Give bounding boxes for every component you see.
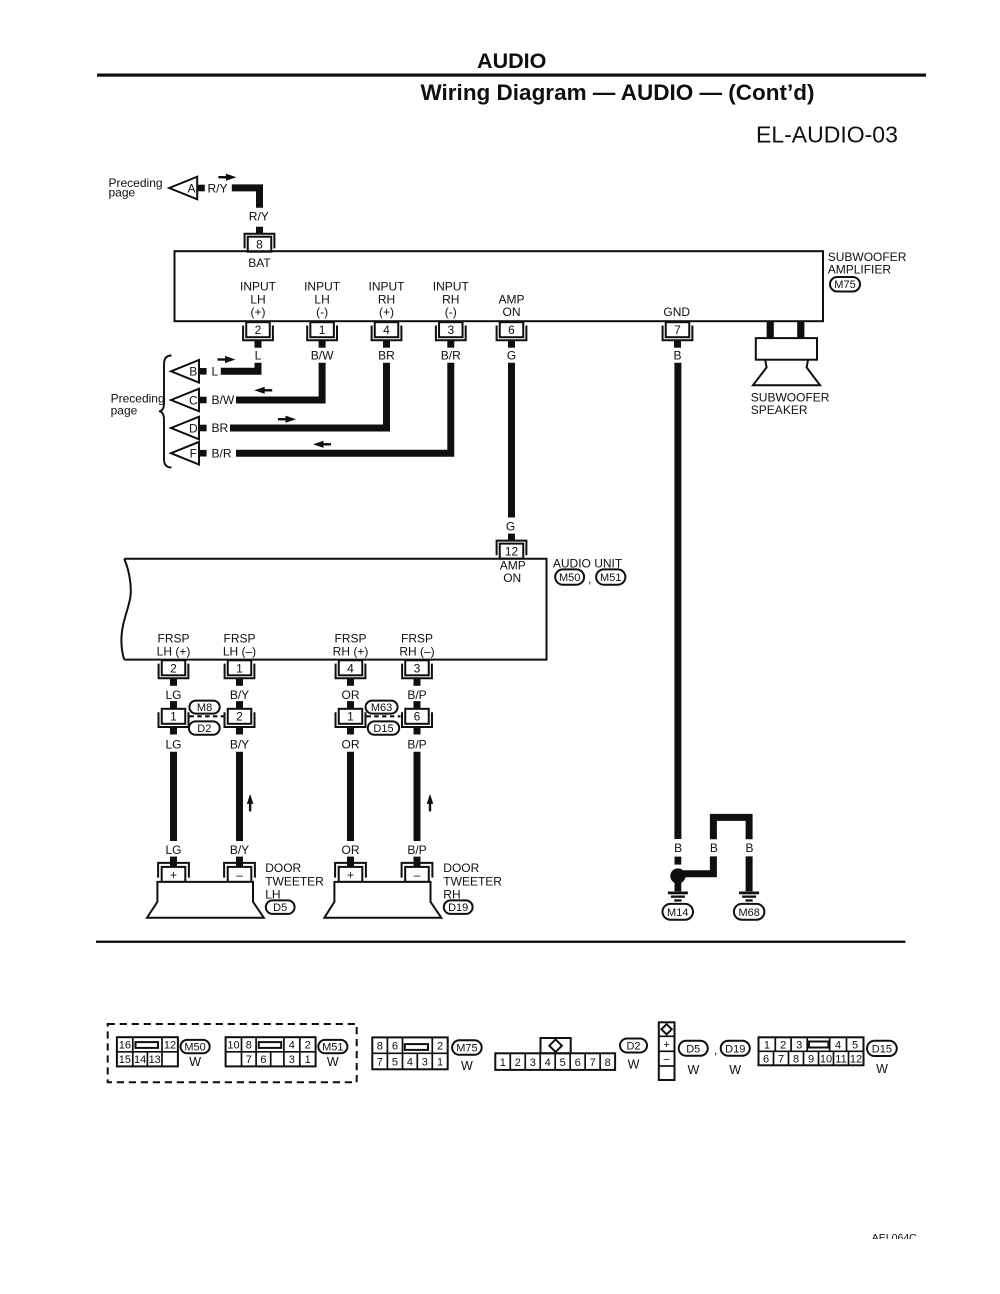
- footer rule: [96, 941, 905, 943]
- svg-text:B/W: B/W: [212, 393, 235, 407]
- svg-text:8: 8: [246, 1040, 252, 1052]
- wire B/Y down to tweeter: [236, 752, 243, 841]
- keyway diamond D2: [549, 1039, 562, 1052]
- pin 8 BAT connector: [248, 237, 272, 252]
- junction node: [670, 868, 685, 883]
- pin 6 connector: [500, 322, 524, 337]
- connector triangle C: [171, 389, 199, 412]
- svg-text:8: 8: [605, 1057, 611, 1069]
- svg-text:(+): (+): [379, 305, 394, 319]
- svg-text:B/P: B/P: [407, 843, 426, 857]
- wire G from pin 6 to pin 12: [508, 363, 515, 518]
- brace for preceding page group: [159, 356, 172, 468]
- svg-text:RH (+): RH (+): [333, 645, 369, 659]
- svg-text:D5: D5: [273, 902, 287, 914]
- arrow right (row D): [286, 416, 297, 423]
- svg-text:5: 5: [392, 1057, 398, 1069]
- svg-text:B/P: B/P: [407, 688, 426, 702]
- svg-text:L: L: [255, 349, 262, 363]
- svg-text:OR: OR: [342, 843, 360, 857]
- svg-text:+: +: [663, 1039, 669, 1051]
- svg-text:B/R: B/R: [212, 446, 232, 460]
- connector face D15: [759, 1037, 864, 1065]
- svg-text:M51: M51: [322, 1042, 343, 1054]
- svg-text:B/P: B/P: [407, 738, 426, 752]
- svg-text:M75: M75: [456, 1043, 477, 1055]
- connector ref D19: [444, 900, 473, 914]
- svg-text:1: 1: [764, 1039, 770, 1051]
- inline connector pin 2 (M8/D2): [236, 701, 243, 709]
- connector ref D15 (face): [867, 1041, 897, 1056]
- svg-text:(+): (+): [251, 305, 266, 319]
- svg-text:D19: D19: [725, 1043, 745, 1055]
- svg-text:15: 15: [119, 1054, 131, 1066]
- amplifier to speaker stub right: [797, 322, 804, 339]
- svg-text:2: 2: [437, 1041, 443, 1053]
- svg-text:F: F: [190, 447, 197, 461]
- subwoofer amplifier box M75: [175, 251, 824, 321]
- svg-text:FRSP: FRSP: [401, 631, 433, 645]
- audio unit pin 4 connector: [339, 660, 363, 675]
- svg-text:7: 7: [377, 1057, 383, 1069]
- svg-text:–: –: [236, 868, 243, 882]
- connector face M75: [372, 1037, 447, 1069]
- svg-text:4: 4: [383, 323, 390, 337]
- wire B stub to junction: [675, 857, 682, 865]
- svg-text:D: D: [189, 421, 198, 435]
- svg-text:2: 2: [170, 661, 177, 675]
- svg-text:D15: D15: [373, 723, 393, 735]
- svg-text:4: 4: [289, 1040, 295, 1052]
- arrow up (B/Y wire): [247, 794, 254, 804]
- audio unit pin 3 connector: [405, 660, 429, 675]
- ground symbol M68: [739, 892, 759, 895]
- svg-text:W: W: [687, 1063, 699, 1077]
- svg-text:10: 10: [227, 1040, 239, 1052]
- svg-text:M68: M68: [738, 907, 759, 919]
- svg-text:A: A: [187, 181, 195, 195]
- svg-text:13: 13: [149, 1054, 161, 1066]
- tweeter RH terminal +: [347, 857, 354, 868]
- wire B from pin 7 down: [674, 363, 681, 839]
- svg-text:M51: M51: [600, 572, 621, 584]
- header rule: [97, 74, 926, 77]
- svg-text:RH (–): RH (–): [399, 645, 434, 659]
- arrow left (row F): [313, 441, 324, 448]
- wire from junction to right branch: [678, 856, 714, 873]
- ground ref M68: [734, 904, 765, 920]
- svg-text:4: 4: [407, 1057, 413, 1069]
- svg-text:LG: LG: [165, 688, 181, 702]
- svg-text:2: 2: [780, 1039, 786, 1051]
- svg-text:+: +: [347, 868, 354, 882]
- connector face D5/D19: [659, 1022, 675, 1080]
- svg-text:BR: BR: [212, 421, 229, 435]
- dashed group box (M50/M51): [108, 1024, 357, 1082]
- svg-text:OR: OR: [342, 738, 360, 752]
- wire B/W from C to pin 1: [236, 363, 322, 400]
- svg-text:Wiring Diagram — AUDIO — (Cont: Wiring Diagram — AUDIO — (Cont’d): [421, 80, 815, 105]
- subwoofer speaker symbol: [756, 338, 817, 360]
- svg-text:7: 7: [778, 1053, 784, 1065]
- wire OR down to tweeter: [347, 752, 354, 841]
- connector triangle F: [171, 442, 199, 465]
- pin 7 connector: [666, 322, 690, 337]
- audio unit box M50/M51: [124, 559, 546, 660]
- svg-text:W: W: [461, 1059, 473, 1073]
- svg-text:1: 1: [347, 710, 354, 724]
- svg-text:6: 6: [392, 1041, 398, 1053]
- svg-text:3: 3: [796, 1039, 802, 1051]
- svg-text:6: 6: [414, 710, 421, 724]
- svg-text:7: 7: [590, 1057, 596, 1069]
- pin 4 connector: [375, 322, 399, 337]
- svg-text:12: 12: [164, 1040, 176, 1052]
- svg-text:3: 3: [530, 1057, 536, 1069]
- svg-text:DOOR: DOOR: [443, 861, 479, 875]
- svg-text:+: +: [170, 868, 177, 882]
- connector ref D15: [368, 721, 399, 734]
- svg-text:7: 7: [246, 1054, 252, 1066]
- svg-text:9: 9: [808, 1053, 814, 1065]
- svg-text:BAT: BAT: [248, 256, 271, 270]
- svg-text:AUDIO: AUDIO: [477, 49, 546, 73]
- svg-text:3: 3: [289, 1054, 295, 1066]
- connector ref M50: [555, 569, 584, 584]
- wire BR from D to pin 4: [230, 363, 387, 428]
- svg-text:1: 1: [236, 661, 243, 675]
- svg-text:D2: D2: [197, 723, 211, 735]
- connector face M50: [117, 1037, 178, 1066]
- keyway diamond D5: [661, 1024, 671, 1034]
- dashed connector mating line (M8/D2): [190, 715, 224, 717]
- svg-text:10: 10: [820, 1053, 832, 1065]
- svg-text:B/Y: B/Y: [230, 688, 249, 702]
- keyway box D2: [541, 1038, 571, 1053]
- connector ref M75: [830, 277, 860, 292]
- connector triangle D: [171, 417, 199, 440]
- svg-text:M50: M50: [559, 572, 580, 584]
- wire B/R from F to pin 3: [236, 363, 451, 454]
- arrow right (row B): [225, 356, 236, 363]
- svg-text:ON: ON: [503, 571, 521, 585]
- svg-text:W: W: [189, 1055, 201, 1069]
- ground ref M14: [663, 904, 694, 920]
- svg-text:W: W: [327, 1055, 339, 1069]
- svg-text:16: 16: [119, 1040, 131, 1052]
- connector ref M63: [366, 701, 398, 714]
- connector ref D19 (face): [721, 1041, 750, 1056]
- svg-text:3: 3: [422, 1057, 428, 1069]
- svg-text:5: 5: [560, 1057, 566, 1069]
- svg-text:C: C: [189, 393, 198, 407]
- svg-text:B: B: [710, 841, 718, 855]
- connector face M51: [226, 1037, 316, 1066]
- door tweeter RH speaker symbol: [324, 882, 441, 918]
- connector ref D5 (face): [679, 1041, 708, 1056]
- svg-text:B: B: [674, 841, 682, 855]
- dashed connector mating line (M63/D15): [367, 715, 401, 717]
- connector ref M51: [596, 569, 625, 584]
- pin 2 connector: [246, 322, 270, 337]
- connector ref D2: [189, 721, 220, 734]
- svg-text:3: 3: [414, 661, 421, 675]
- svg-text:–: –: [664, 1054, 671, 1066]
- svg-text:12: 12: [505, 545, 519, 559]
- svg-text:2: 2: [515, 1057, 521, 1069]
- svg-text:4: 4: [835, 1039, 841, 1051]
- svg-text:D15: D15: [872, 1043, 892, 1055]
- svg-text:1: 1: [305, 1054, 311, 1066]
- wire B/P down to tweeter: [414, 752, 421, 841]
- svg-text:B/Y: B/Y: [230, 843, 249, 857]
- svg-text:,: ,: [714, 1043, 717, 1057]
- svg-text:LG: LG: [165, 738, 181, 752]
- svg-text:W: W: [876, 1062, 888, 1076]
- svg-text:D19: D19: [448, 902, 468, 914]
- svg-text:1: 1: [170, 710, 177, 724]
- svg-text:–: –: [414, 868, 421, 882]
- connector triangle B: [171, 360, 199, 383]
- svg-text:page: page: [109, 186, 136, 200]
- svg-text:AMPLIFIER: AMPLIFIER: [828, 263, 892, 277]
- tweeter LH terminal +: [170, 857, 177, 868]
- svg-text:14: 14: [134, 1054, 146, 1066]
- svg-text:ON: ON: [503, 305, 521, 319]
- wire R/Y from A to pin 8: [232, 188, 260, 208]
- svg-text:2: 2: [305, 1040, 311, 1052]
- svg-text:page: page: [111, 404, 138, 418]
- svg-text:(-): (-): [316, 305, 328, 319]
- svg-text:DOOR: DOOR: [265, 861, 301, 875]
- svg-text:2: 2: [255, 323, 262, 337]
- audio unit pin 2 connector: [162, 660, 186, 675]
- wire B down to M68 ground: [746, 856, 753, 891]
- svg-text:TWEETER: TWEETER: [265, 875, 324, 889]
- svg-text:M8: M8: [197, 702, 212, 714]
- svg-text:B/W: B/W: [311, 349, 334, 363]
- svg-text:4: 4: [347, 661, 354, 675]
- svg-text:L: L: [212, 365, 219, 379]
- connector ref D5: [266, 900, 295, 914]
- svg-text:1: 1: [500, 1057, 506, 1069]
- inline connector pin 6 (M63/D15): [414, 701, 421, 709]
- ground symbol M14: [668, 892, 688, 895]
- svg-text:B/R: B/R: [441, 349, 461, 363]
- svg-text:BR: BR: [378, 349, 395, 363]
- pin 1 connector: [310, 322, 334, 337]
- svg-text:G: G: [507, 349, 516, 363]
- svg-text:TWEETER: TWEETER: [443, 875, 502, 889]
- pin 3 connector: [439, 322, 463, 337]
- arrow right (A feed): [226, 174, 237, 181]
- svg-text:M75: M75: [834, 279, 855, 291]
- svg-text:12: 12: [850, 1053, 862, 1065]
- svg-text:LH (+): LH (+): [157, 645, 191, 659]
- svg-text:LH (–): LH (–): [223, 645, 256, 659]
- svg-text:R/Y: R/Y: [249, 209, 269, 223]
- door tweeter LH speaker symbol: [147, 882, 264, 918]
- svg-text:7: 7: [674, 323, 681, 337]
- svg-text:2: 2: [236, 710, 243, 724]
- svg-text:W: W: [729, 1063, 741, 1077]
- svg-text:6: 6: [575, 1057, 581, 1069]
- svg-text:LG: LG: [165, 843, 181, 857]
- svg-text:8: 8: [793, 1053, 799, 1065]
- svg-text:EL-AUDIO-03: EL-AUDIO-03: [756, 122, 898, 148]
- svg-text:M50: M50: [184, 1042, 205, 1054]
- svg-text:5: 5: [852, 1039, 858, 1051]
- svg-text:FRSP: FRSP: [334, 631, 366, 645]
- svg-text:AUDIO UNIT: AUDIO UNIT: [553, 556, 623, 570]
- wire junction to M14 ground: [675, 883, 682, 891]
- svg-text:8: 8: [256, 238, 263, 252]
- svg-text:G: G: [506, 519, 515, 533]
- svg-text:B: B: [673, 349, 681, 363]
- tweeter RH terminal -: [414, 857, 421, 868]
- svg-text:D5: D5: [686, 1043, 700, 1055]
- svg-text:OR: OR: [342, 688, 360, 702]
- svg-text:M14: M14: [667, 907, 688, 919]
- inline connector pin 1 (M8/D2): [170, 701, 177, 709]
- svg-text:D2: D2: [626, 1040, 640, 1052]
- svg-text:6: 6: [508, 323, 515, 337]
- svg-text:6: 6: [260, 1054, 266, 1066]
- connector face D2: [495, 1053, 615, 1070]
- svg-text:4: 4: [545, 1057, 551, 1069]
- svg-text:11: 11: [835, 1053, 846, 1065]
- svg-text:SPEAKER: SPEAKER: [751, 403, 808, 417]
- connector ref D2 (face): [620, 1039, 647, 1053]
- svg-text:,: ,: [588, 572, 591, 586]
- wire L from B to pin 2: [221, 363, 258, 372]
- audio unit pin 1 connector: [228, 660, 252, 675]
- wire B bridge over to M68: [713, 817, 749, 839]
- arrow left (row C): [254, 387, 265, 394]
- connector triangle A: [169, 177, 197, 200]
- svg-text:B: B: [189, 365, 197, 379]
- svg-text:6: 6: [763, 1053, 769, 1065]
- inline connector pin 1 (M63/D15): [347, 701, 354, 709]
- connector ref M51 (face): [318, 1040, 347, 1053]
- svg-text:R/Y: R/Y: [208, 181, 228, 195]
- svg-text:(-): (-): [445, 305, 457, 319]
- arrow up (B/P wire): [427, 794, 434, 804]
- wire LG down to tweeter: [170, 752, 177, 841]
- connector ref M50 (face): [181, 1040, 210, 1053]
- svg-text:FRSP: FRSP: [223, 631, 255, 645]
- svg-text:3: 3: [447, 323, 454, 337]
- svg-text:8: 8: [377, 1041, 383, 1053]
- svg-text:B/Y: B/Y: [230, 738, 249, 752]
- tweeter LH terminal -: [236, 857, 243, 868]
- svg-text:M63: M63: [371, 702, 392, 714]
- pin 12 connector (audio unit): [500, 544, 524, 559]
- svg-text:1: 1: [437, 1057, 443, 1069]
- connector ref M75 (face): [452, 1040, 482, 1055]
- svg-text:1: 1: [319, 323, 326, 337]
- svg-text:FRSP: FRSP: [157, 631, 189, 645]
- connector ref M8: [189, 701, 219, 714]
- svg-text:GND: GND: [663, 305, 690, 319]
- svg-text:W: W: [628, 1057, 640, 1071]
- svg-text:B: B: [745, 841, 753, 855]
- amplifier to speaker stub left: [767, 322, 774, 339]
